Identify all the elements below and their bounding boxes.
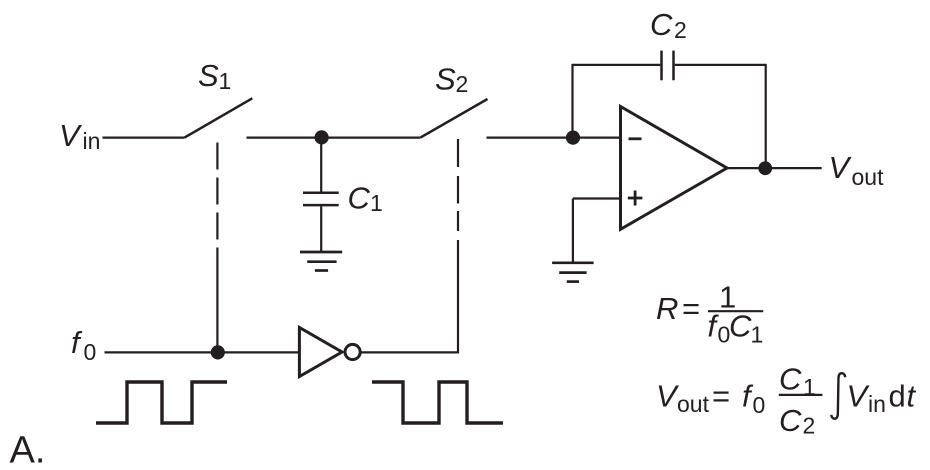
svg-text:f: f	[71, 325, 83, 360]
inverter U2 bubble	[345, 344, 360, 359]
svg-text:V: V	[59, 118, 83, 153]
clock waveform phi1	[96, 382, 227, 423]
wire f0 to inverter	[105, 351, 300, 353]
wire feedback right vertical	[765, 64, 767, 168]
svg-text:in: in	[868, 391, 886, 417]
label A.	[10, 430, 46, 470]
inverter U2	[299, 328, 342, 377]
clock waveform phi2 (inverted)	[372, 382, 503, 423]
node Vin label	[59, 118, 100, 154]
wire S1 to node A to S2	[247, 137, 421, 139]
wire S2 to inverting input	[487, 137, 621, 139]
wire op-amp output	[727, 167, 822, 169]
svg-text:V: V	[829, 150, 853, 185]
svg-text:=: =	[682, 291, 700, 326]
svg-text:=: =	[712, 379, 730, 414]
capacitor C2	[660, 51, 663, 81]
svg-text:C: C	[650, 7, 673, 42]
node D junction dot (f0 line)	[211, 345, 225, 359]
svg-text:in: in	[83, 128, 101, 154]
wire inverter output to S2 control	[361, 240, 458, 352]
svg-text:2: 2	[456, 71, 469, 97]
capacitor C2 label	[650, 7, 687, 43]
svg-text:C: C	[779, 362, 802, 397]
switch S2 lever	[420, 99, 487, 138]
svg-text:C: C	[729, 309, 752, 344]
wire S2 control line (dashed)	[457, 139, 459, 231]
svg-text:0: 0	[84, 339, 97, 365]
switch S2 label	[435, 62, 468, 98]
svg-text:C: C	[348, 181, 371, 216]
op-amp plus sign	[628, 197, 643, 200]
wire Vin to S1	[103, 137, 185, 139]
equation R = 1/(f0 C1)	[656, 280, 763, 348]
equation Vout = f0 (C1/C2) integral Vin dt	[656, 362, 917, 439]
wire feedback left vertical	[571, 64, 573, 138]
wire non-inverting to ground	[572, 199, 574, 262]
ground (op-amp + input)	[552, 263, 594, 282]
node Vout label	[829, 150, 885, 190]
node f0 label	[71, 325, 96, 365]
wire feedback top left segment	[573, 64, 661, 66]
svg-text:S: S	[435, 62, 456, 97]
ground (C1)	[300, 252, 342, 271]
switch S1 lever	[185, 98, 253, 137]
node A junction dot	[315, 130, 329, 144]
svg-text:1: 1	[751, 322, 764, 348]
svg-text:out: out	[677, 391, 710, 417]
wire C1 top lead	[320, 137, 322, 191]
svg-text:1: 1	[370, 190, 383, 216]
wire non-inverting input	[573, 197, 621, 199]
svg-text:d: d	[889, 379, 906, 414]
wire feedback top right segment	[675, 64, 766, 66]
capacitor C1 label	[348, 181, 383, 217]
op-amp minus sign	[629, 137, 642, 140]
svg-text:A.: A.	[10, 430, 46, 470]
wire S1 control line (dashed)	[216, 143, 218, 353]
node B junction dot (inverting input)	[566, 131, 580, 145]
svg-text:R: R	[656, 291, 678, 326]
op-amp U1	[621, 107, 728, 230]
svg-text:out: out	[852, 164, 885, 190]
equation R fraction bar	[708, 310, 763, 312]
equation Vout fraction bar	[779, 394, 823, 396]
svg-text:2: 2	[674, 17, 687, 43]
wire C1 bottom lead	[320, 206, 322, 251]
node C output junction dot	[758, 161, 772, 175]
svg-text:1: 1	[219, 68, 232, 94]
svg-text:S: S	[198, 58, 219, 93]
svg-text:t: t	[907, 379, 917, 414]
capacitor C1	[303, 192, 339, 195]
svg-text:2: 2	[803, 413, 816, 439]
svg-text:0: 0	[753, 392, 766, 418]
svg-text:1: 1	[803, 374, 816, 400]
switch S1 label	[198, 58, 231, 94]
svg-text:V: V	[847, 379, 871, 414]
svg-text:C: C	[779, 403, 802, 438]
